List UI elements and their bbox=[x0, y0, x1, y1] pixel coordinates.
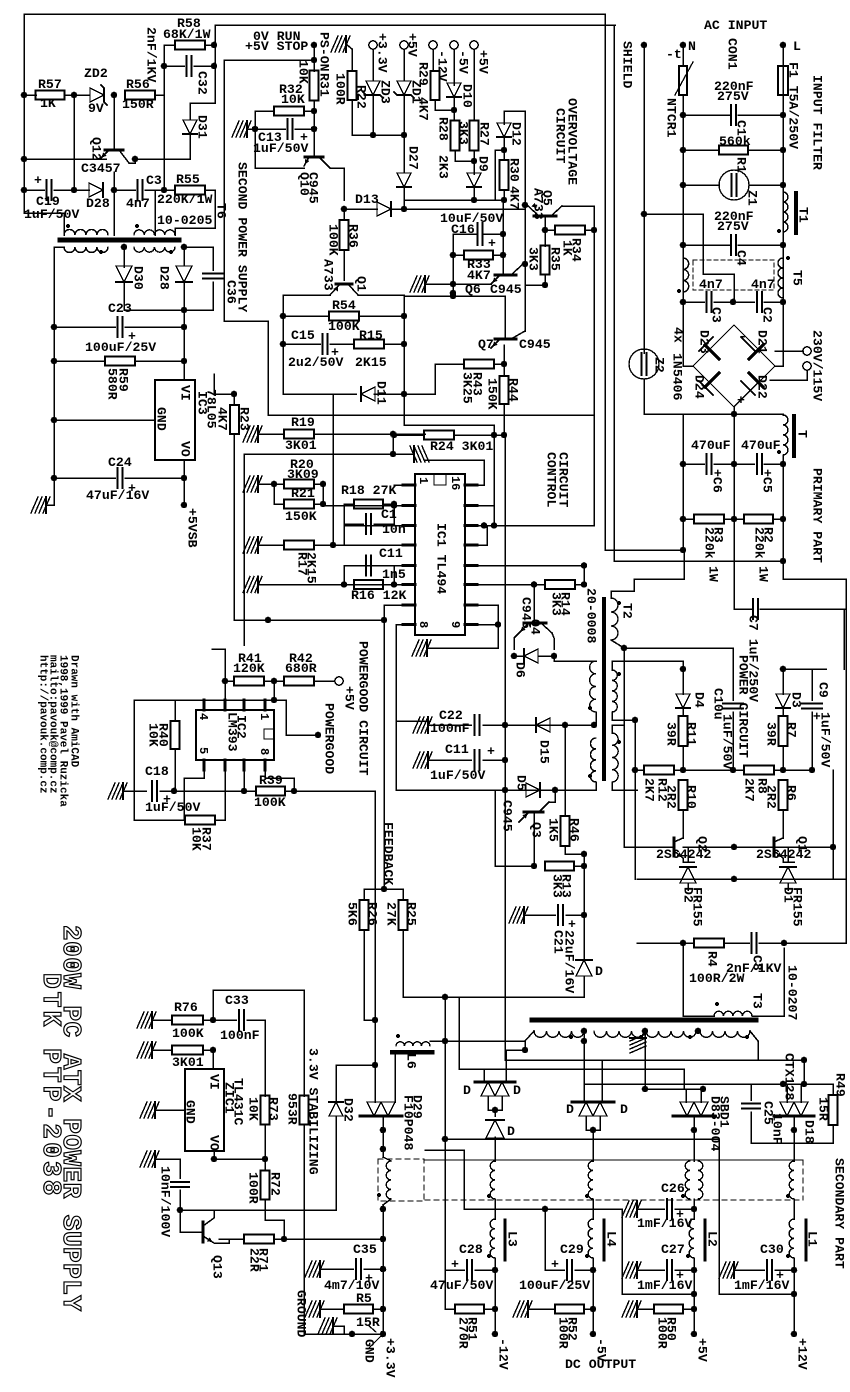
node +5 gnd bbox=[691, 1291, 698, 1298]
wire Q3 base bbox=[533, 812, 535, 866]
svg-text:5K6: 5K6 bbox=[345, 902, 360, 926]
svg-text:22R: 22R bbox=[247, 1248, 262, 1272]
svg-text:R46: R46 bbox=[567, 818, 582, 842]
wire pin3 bbox=[344, 525, 403, 527]
svg-text:R6: R6 bbox=[784, 785, 799, 801]
wire D20 down bbox=[403, 976, 584, 997]
wire bridge N bbox=[682, 325, 684, 366]
svg-text:R43: R43 bbox=[470, 372, 485, 396]
wire x134 feed bbox=[133, 700, 135, 791]
inductor L6 bbox=[396, 1042, 430, 1046]
terminal GND bbox=[349, 1331, 356, 1338]
wire fb left bbox=[364, 889, 384, 900]
wire y550 bbox=[605, 549, 683, 551]
svg-text:+5V STOP: +5V STOP bbox=[245, 39, 308, 54]
svg-text:R14: R14 bbox=[558, 592, 573, 616]
wire x74 bbox=[73, 95, 75, 190]
node PSON b bbox=[311, 57, 318, 64]
node x635 b bbox=[632, 767, 639, 774]
wire R19 right bbox=[314, 433, 425, 435]
wire Q6 collector bbox=[523, 263, 525, 265]
svg-text:VO: VO bbox=[207, 1135, 222, 1151]
wire prim out right bbox=[624, 647, 733, 649]
svg-text:-12V: -12V bbox=[435, 50, 450, 82]
capacitor C13 bbox=[255, 128, 285, 130]
node left C bbox=[21, 187, 28, 194]
wire F1 down bbox=[782, 95, 784, 302]
wire x505 mid bbox=[504, 725, 506, 790]
svg-text:A733: A733 bbox=[531, 188, 546, 220]
wire L4 top bbox=[592, 1199, 594, 1219]
svg-text:TL431C: TL431C bbox=[231, 1078, 246, 1126]
diode D29 F10P048 bbox=[360, 1114, 402, 1117]
node C22 right bbox=[502, 722, 509, 729]
wire R29 down bbox=[435, 100, 454, 110]
svg-text:R18 27K: R18 27K bbox=[341, 483, 396, 498]
resistor R17 bbox=[284, 541, 314, 550]
node dd12 out bbox=[492, 1107, 499, 1114]
resistor R27 bbox=[470, 121, 479, 151]
svg-text:680R: 680R bbox=[285, 661, 317, 676]
node D29 b bbox=[380, 1146, 387, 1153]
node 4n7 mid bbox=[730, 299, 737, 306]
ground R52 bbox=[527, 1301, 529, 1317]
node R54 left bbox=[280, 313, 287, 320]
svg-text:C4: C4 bbox=[734, 250, 749, 266]
terminal +12V out bbox=[793, 1270, 795, 1334]
resistor R52 bbox=[528, 1308, 555, 1310]
resistor R4 bbox=[683, 942, 694, 944]
wire pin8 bbox=[396, 625, 430, 722]
wire Q12 row bbox=[24, 158, 106, 160]
wire x323 bbox=[322, 484, 324, 506]
wire D13 right bbox=[391, 208, 525, 210]
svg-text:D: D bbox=[595, 964, 603, 979]
inductor L3 bbox=[490, 1219, 495, 1258]
wire ZIC1 VI bbox=[212, 1050, 214, 1069]
svg-text:4K7: 4K7 bbox=[467, 268, 491, 283]
pin stub right bbox=[465, 524, 477, 527]
svg-text:D23: D23 bbox=[697, 330, 712, 354]
wire to D31 bbox=[190, 103, 215, 119]
svg-text:T3: T3 bbox=[750, 993, 765, 1009]
node R41 left bbox=[222, 678, 229, 685]
wire Q12-D31 row bbox=[135, 158, 190, 160]
wire L2 top bbox=[693, 1199, 695, 1209]
wire Q2 collector bbox=[682, 833, 684, 838]
svg-text:R27: R27 bbox=[477, 122, 492, 146]
svg-text:A733: A733 bbox=[321, 259, 336, 291]
svg-text:953R: 953R bbox=[285, 1093, 300, 1125]
node R41 right bbox=[271, 678, 278, 685]
svg-text:POWERGOOD CIRCUIT: POWERGOOD CIRCUIT bbox=[356, 641, 371, 776]
T2 sec4 winding bbox=[612, 733, 618, 782]
svg-text:Q3: Q3 bbox=[529, 822, 544, 838]
node R4 left bbox=[680, 940, 687, 947]
diode D24 bbox=[705, 373, 719, 387]
resistor R56 bbox=[125, 91, 155, 100]
svg-text:D11: D11 bbox=[374, 381, 389, 405]
capacitor C8 bbox=[724, 942, 749, 944]
T3 sec winding c bbox=[646, 1031, 696, 1037]
svg-text:230V/115V: 230V/115V bbox=[810, 330, 825, 401]
node y847 mid bbox=[731, 844, 738, 851]
node pin14 join bbox=[481, 522, 488, 529]
wire ZD3 down bbox=[372, 95, 374, 135]
svg-text:10K: 10K bbox=[296, 60, 311, 84]
transistor Q1 2SC4242 bbox=[773, 838, 776, 856]
svg-text:VI: VI bbox=[178, 385, 193, 401]
node sec tap1 bbox=[581, 1028, 588, 1035]
T2 sec1 winding bbox=[590, 661, 596, 712]
node C23 left bbox=[51, 324, 58, 331]
wire sbd1 top bbox=[685, 1089, 687, 1102]
wire pin4 loop bbox=[184, 770, 204, 820]
resistor R58 bbox=[175, 41, 205, 50]
wire pin5 r37 bbox=[215, 770, 225, 820]
wire Q4 base bbox=[533, 585, 535, 624]
svg-text:R7: R7 bbox=[784, 722, 799, 738]
wire R39 out bbox=[294, 790, 375, 792]
svg-text:3K01: 3K01 bbox=[285, 438, 317, 453]
node C6 right bbox=[731, 461, 738, 468]
node +12 gnd bbox=[791, 1291, 798, 1298]
node C9 mid bbox=[809, 767, 816, 774]
node C11b right bbox=[502, 757, 509, 764]
capacitor C9 bbox=[811, 669, 813, 700]
node 33 feed bbox=[372, 1062, 379, 1069]
wire R21 right bbox=[314, 503, 323, 505]
wire R22 down bbox=[351, 100, 353, 135]
svg-text:9V: 9V bbox=[88, 101, 104, 116]
wire ZIC1 VO bbox=[213, 1151, 215, 1159]
node R3 right bbox=[731, 516, 738, 523]
wire y190 rail bbox=[24, 189, 44, 191]
varistor Z2 bbox=[629, 349, 659, 379]
resistor R13 bbox=[495, 865, 534, 867]
svg-text:10-0207: 10-0207 bbox=[785, 965, 800, 1020]
svg-text:+C5: +C5 bbox=[760, 469, 775, 493]
T3 sec winding a bbox=[534, 1031, 584, 1037]
svg-text:C11: C11 bbox=[379, 546, 403, 561]
node ZD3 bot bbox=[370, 132, 377, 139]
IC ZIC1 TL431C bbox=[185, 1069, 224, 1151]
pin stub right bbox=[465, 504, 477, 507]
svg-text:D21: D21 bbox=[755, 330, 770, 354]
node sec tap3 bbox=[695, 1028, 702, 1035]
svg-text:D9: D9 bbox=[476, 156, 491, 172]
svg-text:C35: C35 bbox=[353, 1242, 377, 1257]
svg-text:1: 1 bbox=[416, 477, 430, 484]
zener ZD1 bbox=[403, 49, 405, 80]
svg-text:D13: D13 bbox=[355, 192, 379, 207]
resistor R20 bbox=[284, 480, 314, 489]
svg-text:R4: R4 bbox=[705, 951, 720, 967]
zener ZD2 bbox=[90, 88, 104, 102]
node D6 right bbox=[551, 653, 558, 660]
wire y561 bbox=[614, 560, 783, 562]
ground R50 bbox=[636, 1301, 638, 1317]
wire sec left bbox=[54, 247, 64, 327]
svg-text:R40: R40 bbox=[156, 723, 171, 747]
wire Q10 collector bbox=[330, 168, 344, 200]
resistor R6 bbox=[779, 780, 788, 810]
svg-text:3K09: 3K09 bbox=[287, 467, 319, 482]
wire y1069 bbox=[459, 1068, 684, 1070]
wire T2 sec1 top bbox=[555, 660, 596, 662]
svg-text:N: N bbox=[688, 39, 696, 54]
wire D11 row bbox=[283, 393, 356, 395]
wire x184 IC3 bbox=[183, 327, 185, 380]
ground Q6 bbox=[424, 276, 426, 292]
resistor R73 bbox=[261, 1096, 270, 1125]
wire x734 down bbox=[733, 519, 735, 609]
node C30 right bbox=[791, 1267, 798, 1274]
wire T bottom bbox=[782, 455, 784, 464]
svg-text:GND: GND bbox=[362, 1339, 377, 1363]
capacitor C7 bbox=[734, 608, 751, 610]
svg-text:C3: C3 bbox=[709, 307, 724, 323]
wire x594 rail bbox=[593, 206, 595, 526]
svg-text:D: D bbox=[566, 1102, 574, 1117]
svg-text:100nF: 100nF bbox=[430, 721, 470, 736]
wire R24 top bbox=[404, 425, 494, 435]
wire C23 bbox=[54, 326, 115, 328]
wire R23 down bbox=[233, 434, 235, 620]
wire x503 bbox=[502, 200, 504, 255]
diode D28 bbox=[89, 183, 103, 197]
svg-text:D22: D22 bbox=[755, 375, 770, 399]
resistor R21 bbox=[274, 503, 284, 505]
node x635 a bbox=[632, 717, 639, 724]
node C24 left bbox=[51, 475, 58, 482]
IC IC3 78L05 bbox=[155, 380, 195, 460]
diode single -12V bbox=[494, 1110, 496, 1116]
node Q5 emitter bbox=[522, 202, 529, 209]
wire x336 upper bbox=[335, 1065, 337, 1102]
wire IC2 top rail bbox=[134, 699, 274, 701]
svg-text:D: D bbox=[513, 1083, 521, 1098]
wire R22 top bbox=[346, 44, 352, 71]
wire y1209 bbox=[464, 1208, 622, 1210]
wire x719 dn bbox=[718, 1139, 720, 1294]
svg-text:1uF/50V: 1uF/50V bbox=[145, 800, 200, 815]
svg-text:R76: R76 bbox=[174, 1000, 198, 1015]
wire x393 bbox=[392, 434, 394, 454]
node R23 top bbox=[231, 391, 238, 398]
svg-text:+5V: +5V bbox=[405, 33, 420, 57]
svg-text:275V: 275V bbox=[717, 219, 749, 234]
diode D12 bbox=[503, 111, 505, 124]
wire d18 top bbox=[786, 1084, 788, 1102]
wire R6 down bbox=[782, 810, 784, 838]
node C18 bbox=[171, 788, 178, 795]
wire x54 down bbox=[53, 327, 55, 505]
node R55 left bbox=[161, 187, 168, 194]
wire Q10 emitter bbox=[255, 167, 304, 169]
wire x584 mid bbox=[583, 854, 585, 961]
IC2 notch bbox=[264, 729, 274, 739]
svg-text:VI: VI bbox=[207, 1074, 222, 1090]
svg-text:100R: 100R bbox=[333, 73, 348, 105]
svg-text:4: 4 bbox=[196, 713, 210, 720]
wire R30 bottom bbox=[503, 190, 505, 200]
svg-text:4n7: 4n7 bbox=[699, 277, 723, 292]
wire x333 bbox=[332, 394, 334, 545]
wire C3 right bbox=[145, 189, 175, 191]
svg-text:C11: C11 bbox=[445, 742, 469, 757]
svg-text:-12V: -12V bbox=[496, 1338, 511, 1370]
resistor R24 bbox=[424, 431, 454, 440]
IC2 pins bottom bbox=[203, 760, 206, 770]
IC1 notch bbox=[434, 474, 446, 485]
svg-text:2R2: 2R2 bbox=[664, 785, 679, 809]
wire pin1 bbox=[394, 484, 403, 486]
svg-text:100K: 100K bbox=[326, 224, 341, 256]
svg-text:T: T bbox=[795, 430, 810, 438]
svg-text:20-0008: 20-0008 bbox=[584, 588, 599, 643]
node R30 top bbox=[501, 147, 508, 154]
svg-text:100R: 100R bbox=[655, 1317, 670, 1349]
wire C10 down bbox=[732, 712, 734, 770]
svg-text:9: 9 bbox=[448, 621, 462, 628]
node C10 mid bbox=[730, 767, 737, 774]
svg-text:D24: D24 bbox=[692, 375, 707, 399]
wire x383 out bbox=[382, 1239, 384, 1334]
node R13 left bbox=[531, 863, 538, 870]
wire R72 down bbox=[265, 1200, 284, 1239]
svg-text:R16 12K: R16 12K bbox=[351, 588, 406, 603]
wire C16 top branch bbox=[495, 150, 504, 200]
svg-text:1mF/16V: 1mF/16V bbox=[734, 1278, 789, 1293]
wire x684 dn bbox=[683, 1069, 685, 1089]
node D5 right bbox=[552, 787, 559, 794]
svg-text:39R: 39R bbox=[764, 722, 779, 746]
node T6 sec taps bbox=[121, 244, 128, 251]
svg-text:D5: D5 bbox=[514, 775, 529, 791]
svg-text:+: + bbox=[487, 744, 495, 759]
svg-text:INPUT FILTER: INPUT FILTER bbox=[810, 75, 825, 170]
node C15 left bbox=[280, 341, 287, 348]
second supply box bbox=[223, 60, 225, 321]
svg-text:4K7: 4K7 bbox=[507, 186, 522, 210]
T3 sec winding b bbox=[594, 1031, 644, 1037]
svg-text:D6: D6 bbox=[513, 662, 528, 678]
node 33 b bbox=[380, 1236, 387, 1243]
svg-text:220K/1W: 220K/1W bbox=[157, 192, 212, 207]
wire x344 r17 bbox=[343, 524, 345, 545]
svg-text:R49: R49 bbox=[833, 1073, 848, 1097]
T3 sec winding d bbox=[700, 1031, 750, 1037]
transistor Q1 bbox=[336, 283, 352, 286]
wire pin10 loop bbox=[477, 605, 498, 625]
transistor Q6 bbox=[495, 274, 516, 277]
terminal +5VSB bbox=[181, 502, 188, 509]
svg-text:C1: C1 bbox=[381, 507, 397, 522]
wire R10 down bbox=[682, 810, 684, 838]
svg-text:150K: 150K bbox=[485, 378, 500, 410]
svg-text:3K3: 3K3 bbox=[526, 247, 541, 271]
wire R28 down bbox=[455, 151, 474, 161]
wire C25 top bbox=[751, 1083, 783, 1085]
node C13 right bbox=[311, 126, 318, 133]
node 4n7 row r bbox=[780, 299, 787, 306]
diode D23 bbox=[705, 345, 719, 359]
wire shield branch bbox=[644, 214, 734, 302]
svg-text:R13: R13 bbox=[559, 874, 574, 898]
svg-text:1W: 1W bbox=[706, 566, 721, 582]
svg-text:FEEDBACK: FEEDBACK bbox=[381, 822, 396, 885]
wire VO row bbox=[214, 1158, 265, 1160]
svg-text:L2: L2 bbox=[705, 1231, 720, 1247]
node left A bbox=[21, 92, 28, 99]
node R1 right bbox=[780, 147, 787, 154]
wire T6 prim mid bbox=[113, 190, 115, 235]
wire ZD1 down bbox=[403, 95, 405, 150]
diode D10 bbox=[453, 49, 455, 85]
wire to L4 bbox=[592, 1130, 594, 1161]
wire x504 down2 bbox=[504, 435, 506, 725]
svg-text:39R: 39R bbox=[664, 722, 679, 746]
node IC2 top bbox=[271, 697, 278, 704]
svg-text:GROUND: GROUND bbox=[294, 1290, 309, 1338]
node 33 a bbox=[380, 1206, 387, 1213]
wire C16 right bbox=[483, 233, 504, 235]
svg-text:T5: T5 bbox=[790, 270, 805, 286]
inductor L4 bbox=[588, 1219, 593, 1258]
terminal +5V out bbox=[693, 1309, 695, 1334]
svg-text:4K7: 4K7 bbox=[416, 97, 431, 121]
svg-text:D3: D3 bbox=[789, 692, 804, 708]
svg-text:3K3: 3K3 bbox=[456, 121, 471, 145]
svg-text:ZD3: ZD3 bbox=[378, 80, 393, 104]
wire pin11 bbox=[477, 584, 534, 586]
svg-text:-t: -t bbox=[666, 47, 682, 62]
svg-text:R29: R29 bbox=[416, 62, 431, 86]
resistor R16 bbox=[354, 580, 383, 589]
node C35 bbox=[380, 1266, 387, 1273]
resistor R54 bbox=[283, 315, 329, 317]
pin stub left bbox=[403, 484, 415, 487]
node R33 right bbox=[500, 252, 507, 259]
ground T3 center bbox=[644, 1031, 646, 1038]
svg-text:4n7: 4n7 bbox=[126, 196, 150, 211]
svg-text:T2: T2 bbox=[620, 603, 635, 619]
pin stub right bbox=[465, 623, 477, 626]
svg-text:R31: R31 bbox=[317, 73, 332, 97]
dashed box L7 bbox=[378, 1159, 424, 1201]
terminal +3.3V out bbox=[380, 1331, 387, 1338]
svg-text:+5V: +5V bbox=[695, 1338, 710, 1362]
node T2 prim bot bbox=[621, 645, 628, 652]
svg-text:R57: R57 bbox=[38, 77, 62, 92]
svg-text:+5V: +5V bbox=[476, 50, 491, 74]
wire y1065 bbox=[336, 1064, 375, 1066]
svg-text:http://pavouk.comp.cz: http://pavouk.comp.cz bbox=[36, 655, 48, 794]
svg-text:1uF/50V: 1uF/50V bbox=[818, 712, 833, 767]
diode D3 bbox=[782, 669, 784, 694]
svg-text:100R: 100R bbox=[246, 1172, 261, 1204]
wire sec4 bot bbox=[612, 782, 637, 790]
svg-text:L6: L6 bbox=[404, 1053, 419, 1069]
svg-text:16: 16 bbox=[448, 476, 462, 490]
wire left rail bbox=[23, 14, 25, 190]
pin stub right bbox=[465, 484, 477, 487]
transformer T winding bbox=[783, 415, 788, 455]
node D4 top bbox=[680, 666, 687, 673]
node D15 right bbox=[562, 722, 569, 729]
node ZD2-R56 bbox=[111, 92, 118, 99]
